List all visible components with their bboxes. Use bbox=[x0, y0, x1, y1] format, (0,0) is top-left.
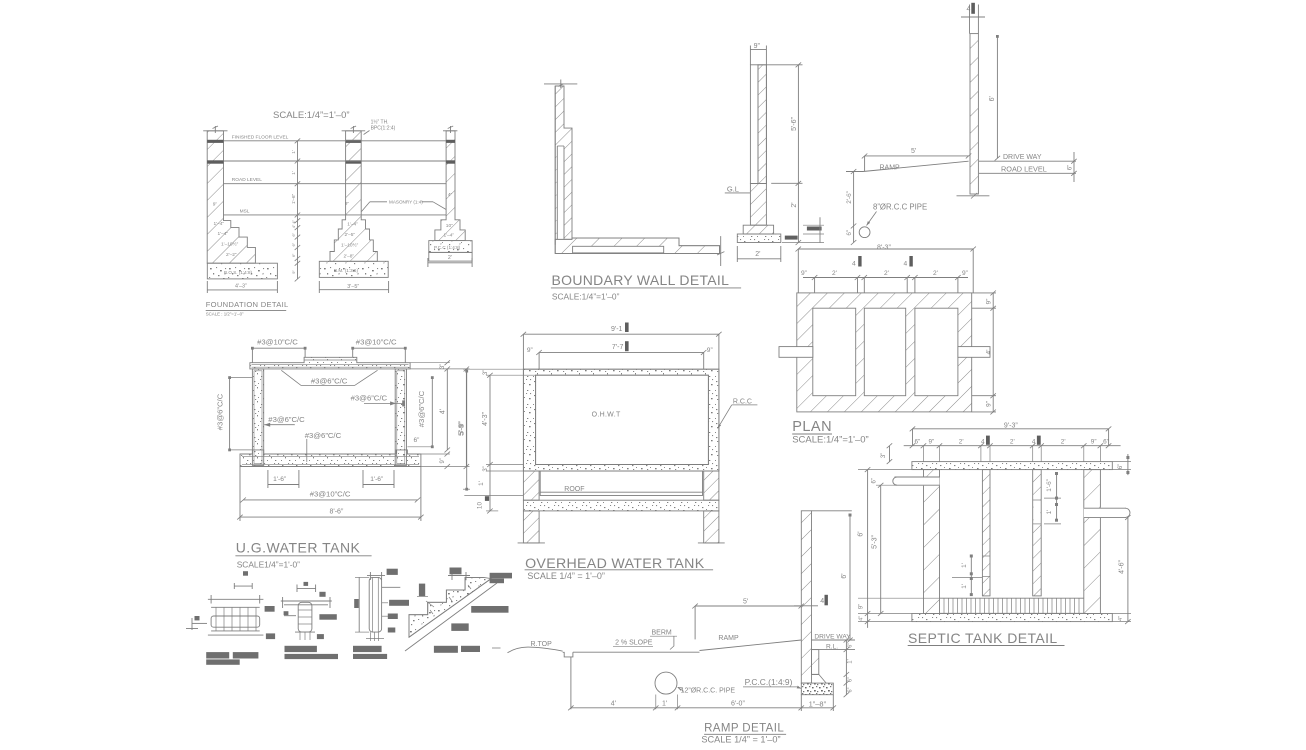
svg-text:3”: 3” bbox=[483, 370, 489, 375]
svg-text:9”: 9” bbox=[1091, 439, 1097, 446]
column left bracket bbox=[284, 615, 296, 617]
svg-text:2': 2' bbox=[884, 270, 889, 277]
beam bottom dim line bbox=[208, 634, 264, 636]
svg-text:1': 1' bbox=[291, 150, 296, 154]
svg-text:6”: 6” bbox=[848, 677, 854, 682]
dim below F2 bbox=[319, 289, 388, 291]
dim 5' bbox=[865, 155, 969, 157]
svg-text:4: 4 bbox=[820, 598, 824, 605]
svg-text:9”: 9” bbox=[440, 458, 446, 463]
tank walls (stippled) bbox=[523, 369, 719, 471]
svg-text:6”: 6” bbox=[291, 253, 296, 257]
wall left dim bbox=[358, 577, 360, 632]
column C3 cap bbox=[443, 130, 457, 132]
svg-text:9”: 9” bbox=[801, 270, 807, 277]
svg-text:BPC(1:2:4): BPC(1:2:4) bbox=[371, 126, 396, 132]
svg-text:#3@10”C/C: #3@10”C/C bbox=[310, 489, 351, 498]
ramp slope line bbox=[863, 161, 969, 171]
svg-text:9”: 9” bbox=[707, 347, 713, 354]
right dim line bbox=[992, 293, 994, 412]
svg-text:MASONRY (1:4): MASONRY (1:4) bbox=[389, 200, 423, 205]
svg-text:1½” TH.: 1½” TH. bbox=[371, 119, 389, 126]
left dim 4'-3" bbox=[489, 375, 491, 464]
svg-text:3”: 3” bbox=[881, 453, 887, 458]
vertical dim string between C1/C2 bbox=[297, 141, 299, 279]
dim 5' above ramp bbox=[695, 605, 801, 607]
floor line 2 bbox=[224, 160, 447, 162]
svg-text:6”: 6” bbox=[872, 478, 878, 483]
svg-text:4': 4' bbox=[439, 409, 446, 414]
compound wall bbox=[970, 34, 978, 194]
beam stirrup bottom line bbox=[211, 630, 260, 632]
svg-text:#3@6”C/C: #3@6”C/C bbox=[268, 415, 305, 424]
column C3 with stepped footing bbox=[435, 131, 465, 241]
svg-text:2': 2' bbox=[832, 270, 837, 277]
svg-text:U.G.WATER TANK: U.G.WATER TANK bbox=[236, 540, 361, 556]
svg-text:1': 1' bbox=[478, 481, 485, 486]
svg-text:1': 1' bbox=[662, 701, 667, 708]
svg-text:6”: 6” bbox=[915, 439, 921, 446]
svg-text:9”: 9” bbox=[213, 202, 218, 208]
L-wall inner face lines bbox=[557, 146, 564, 239]
svg-text:9”: 9” bbox=[986, 401, 993, 407]
MSL line bbox=[224, 214, 447, 216]
L-wall base slab upper part bbox=[555, 238, 719, 253]
plinth band level 1 bbox=[207, 140, 223, 143]
svg-text:6'-0”: 6'-0” bbox=[731, 701, 745, 708]
svg-text:6”: 6” bbox=[1068, 165, 1074, 170]
svg-text:#3@6”C/C: #3@6”C/C bbox=[351, 394, 388, 403]
wall right lines bbox=[382, 586, 401, 588]
pipe dim extensions bbox=[655, 695, 657, 710]
right dim line 5'-6" / 2' bbox=[797, 65, 799, 243]
wall footing bbox=[743, 225, 773, 234]
tier dim line bbox=[904, 445, 1121, 447]
svg-text:SCALE:1/4”=1'–0”: SCALE:1/4”=1'–0” bbox=[273, 110, 350, 121]
svg-text:1': 1' bbox=[961, 584, 968, 589]
svg-text:9”: 9” bbox=[859, 604, 865, 609]
svg-text:5'-6”: 5'-6” bbox=[791, 116, 798, 130]
svg-text:FINISHED FLOOR LEVEL: FINISHED FLOOR LEVEL bbox=[232, 134, 289, 140]
right wall stem bbox=[758, 65, 766, 184]
svg-text:4”: 4” bbox=[448, 192, 453, 198]
baffle wall 1 bbox=[982, 470, 990, 596]
step labels C2 bbox=[341, 201, 359, 260]
column body bbox=[298, 602, 312, 632]
baffle wall 2 bbox=[1033, 470, 1042, 596]
svg-text:#3@10”C/C: #3@10”C/C bbox=[356, 338, 397, 347]
svg-text:8'-6”: 8'-6” bbox=[330, 509, 344, 516]
P.C.C. footing block bbox=[801, 683, 833, 695]
tier extension lines down to slab bbox=[924, 446, 1101, 462]
L-wall top dim bbox=[544, 83, 577, 85]
dim 9" bottom right bbox=[421, 453, 450, 455]
svg-text:RAMP DETAIL: RAMP DETAIL bbox=[704, 723, 784, 735]
bottom slab bbox=[912, 614, 1112, 622]
svg-text:9”: 9” bbox=[345, 201, 350, 207]
chamber 1 bbox=[813, 308, 856, 396]
bottom slab bbox=[240, 450, 421, 467]
left wall bbox=[252, 369, 263, 466]
svg-text:6”: 6” bbox=[848, 687, 854, 692]
stair left marks bbox=[419, 584, 425, 597]
svg-text:6”: 6” bbox=[846, 230, 853, 236]
tier dims bbox=[803, 277, 968, 279]
svg-text:1': 1' bbox=[848, 659, 854, 663]
svg-text:MSL: MSL bbox=[240, 209, 250, 215]
R.TOP ground curve bbox=[508, 647, 563, 653]
svg-text:6': 6' bbox=[858, 531, 865, 536]
svg-text:2'–5”: 2'–5” bbox=[345, 232, 356, 238]
svg-text:1'–4”: 1'–4” bbox=[218, 231, 229, 237]
footing F1 (B.O.S.) bbox=[207, 263, 277, 279]
svg-text:4: 4 bbox=[981, 439, 985, 446]
svg-text:1”–8”: 1”–8” bbox=[809, 700, 827, 709]
right wall bbox=[395, 369, 406, 466]
svg-text:R.C.C: R.C.C bbox=[733, 398, 752, 405]
svg-text:SEPTIC TANK DETAIL: SEPTIC TANK DETAIL bbox=[908, 630, 1058, 646]
left vert dim 2'-6" / 6" bbox=[853, 172, 855, 243]
bottom dims 1'-6" bbox=[268, 484, 299, 486]
stair dim diagonal bbox=[405, 583, 497, 651]
stair top bracket bbox=[451, 572, 453, 580]
dim 3" top right bbox=[410, 362, 450, 364]
svg-text:2': 2' bbox=[791, 202, 798, 207]
inlet pipe bbox=[895, 477, 940, 486]
svg-text:2'–2”: 2'–2” bbox=[226, 252, 237, 258]
column label blocks bbox=[319, 592, 325, 597]
beam stirrup top line bbox=[211, 606, 260, 608]
dim 2' below bbox=[737, 258, 781, 260]
svg-text:SCALE 1/4” = 1'–0”: SCALE 1/4” = 1'–0” bbox=[527, 571, 605, 581]
svg-text:5'-9”: 5'-9” bbox=[459, 421, 466, 435]
svg-text:RAMP: RAMP bbox=[880, 165, 901, 172]
svg-text:4'-3”: 4'-3” bbox=[482, 411, 489, 425]
svg-text:9”: 9” bbox=[986, 299, 993, 305]
small dark dim labels right of footing bbox=[807, 227, 822, 231]
beam top dim line bbox=[208, 598, 264, 600]
chamber 2 bbox=[864, 308, 905, 396]
wall top line to 6' dim bbox=[812, 510, 852, 512]
svg-text:#3@6”C/C: #3@6”C/C bbox=[215, 393, 224, 430]
stair waist (speckled) bbox=[409, 577, 491, 637]
svg-text:6”: 6” bbox=[414, 437, 420, 444]
svg-text:ROOF: ROOF bbox=[564, 486, 584, 493]
svg-text:6': 6' bbox=[841, 573, 848, 578]
svg-text:4'-6”: 4'-6” bbox=[1119, 559, 1126, 573]
left wall bbox=[924, 470, 940, 614]
svg-text:1': 1' bbox=[291, 171, 296, 175]
column C2 with stepped footing bbox=[330, 131, 377, 261]
svg-text:9”: 9” bbox=[962, 270, 968, 277]
wall caption blocks bbox=[353, 646, 382, 652]
svg-text:1'-6”: 1'-6” bbox=[1046, 479, 1053, 492]
svg-text:4'–3”: 4'–3” bbox=[235, 283, 247, 289]
svg-text:SCALE 1/4” = 1'–0”: SCALE 1/4” = 1'–0” bbox=[701, 734, 780, 744]
svg-text:9”: 9” bbox=[929, 439, 935, 446]
svg-text:4': 4' bbox=[611, 701, 616, 708]
stair caption blocks bbox=[434, 646, 458, 653]
svg-text:DRIVE WAY: DRIVE WAY bbox=[814, 633, 851, 640]
svg-text:6”: 6” bbox=[848, 643, 854, 648]
support columns upper bbox=[523, 471, 539, 500]
below ground wall bbox=[750, 184, 766, 226]
footing F3 (P.C.C.) bbox=[429, 241, 472, 253]
wall base tick bbox=[957, 195, 990, 197]
top slab bbox=[912, 462, 1112, 470]
left dim 10" bbox=[489, 465, 491, 511]
roof slab under tank bbox=[540, 471, 702, 496]
svg-text:9'-1: 9'-1 bbox=[611, 326, 623, 333]
column top bracket bbox=[297, 588, 316, 590]
L-wall base slab end tick bbox=[720, 236, 722, 266]
ground line bbox=[573, 651, 700, 653]
column C1 with stepped footing bbox=[207, 131, 255, 263]
column C1 cap bbox=[203, 130, 227, 132]
svg-text:10: 10 bbox=[477, 502, 484, 510]
svg-text:#3@10”C/C: #3@10”C/C bbox=[257, 338, 298, 347]
dim 5'-9" far right bbox=[465, 369, 467, 467]
footing stipple base bbox=[737, 234, 781, 243]
svg-text:2'-6”: 2'-6” bbox=[846, 191, 853, 204]
svg-text:1'–10½”: 1'–10½” bbox=[341, 242, 359, 249]
svg-text:1'-6”: 1'-6” bbox=[370, 476, 383, 483]
svg-text:2': 2' bbox=[448, 255, 452, 261]
svg-text:2': 2' bbox=[1061, 439, 1066, 446]
beam body bbox=[211, 616, 260, 627]
svg-text:1'–4”: 1'–4” bbox=[444, 233, 455, 239]
footing F3 lower band bbox=[429, 252, 472, 261]
R.C.C pipe circle bbox=[859, 227, 870, 238]
12" R.C.C pipe circle bbox=[655, 672, 677, 694]
svg-text:6”: 6” bbox=[291, 242, 296, 246]
outlet pipe stub bbox=[958, 347, 990, 358]
road level line bbox=[224, 183, 447, 185]
svg-text:4”: 4” bbox=[291, 219, 296, 223]
septic plan body (hatched) bbox=[797, 293, 972, 412]
svg-text:#3@6”C/C: #3@6”C/C bbox=[417, 390, 426, 427]
svg-text:3'–5”: 3'–5” bbox=[347, 284, 359, 290]
svg-text:5': 5' bbox=[911, 148, 916, 155]
plinth band level 2 bbox=[207, 160, 223, 163]
right 6" dim bbox=[1073, 152, 1075, 182]
L-wall base slab inner step (white) bbox=[573, 246, 664, 253]
support columns lower bbox=[523, 511, 539, 543]
wall body bbox=[369, 577, 381, 632]
svg-text:6”: 6” bbox=[291, 232, 296, 236]
svg-text:1': 1' bbox=[961, 563, 968, 568]
svg-text:2 % SLOPE: 2 % SLOPE bbox=[615, 640, 653, 647]
svg-text:#3@6”C/C: #3@6”C/C bbox=[305, 431, 342, 440]
svg-text:ROAD LEVEL: ROAD LEVEL bbox=[232, 177, 262, 183]
wall bottom marks bbox=[369, 632, 381, 636]
L-wall upper stem bbox=[555, 86, 572, 239]
svg-text:R.TOP: R.TOP bbox=[531, 641, 553, 648]
svg-text:6': 6' bbox=[989, 96, 996, 101]
outlet pipe bbox=[1084, 508, 1128, 518]
column C2 cap bbox=[342, 130, 366, 132]
svg-text:1': 1' bbox=[1046, 510, 1053, 515]
svg-text:RAMP: RAMP bbox=[718, 635, 739, 642]
beam right label block bbox=[265, 606, 275, 612]
svg-text:SCALE:1/4”=1'–0”: SCALE:1/4”=1'–0” bbox=[552, 292, 620, 302]
column bottom marks bbox=[295, 631, 315, 633]
mini detail: wall section bbox=[353, 569, 409, 659]
inlet pipe stub bbox=[779, 347, 813, 358]
svg-text:5': 5' bbox=[743, 599, 748, 606]
beam caption blocks bbox=[206, 652, 229, 658]
svg-text:10”: 10” bbox=[446, 223, 453, 229]
svg-text:2': 2' bbox=[933, 270, 938, 277]
floor slab band bbox=[523, 500, 719, 511]
svg-text:1'–6”: 1'–6” bbox=[291, 193, 296, 204]
svg-text:4”: 4” bbox=[1118, 616, 1124, 621]
svg-text:4: 4 bbox=[1032, 439, 1036, 446]
svg-text:7'-7: 7'-7 bbox=[612, 344, 624, 351]
svg-text:ROAD LEVEL: ROAD LEVEL bbox=[1001, 165, 1047, 174]
svg-text:B.O.S. (1:4:8): B.O.S. (1:4:8) bbox=[224, 270, 253, 275]
svg-text:4”: 4” bbox=[291, 224, 296, 228]
svg-text:2': 2' bbox=[1010, 439, 1015, 446]
dim 1'-6" at baffle2 bbox=[1056, 473, 1058, 498]
column cross lines bbox=[281, 600, 332, 602]
wall top bracket bbox=[370, 576, 400, 578]
dim below F3 bbox=[428, 262, 472, 264]
mini detail: column section bbox=[281, 582, 338, 659]
dim 1' at baffle2 bbox=[1056, 498, 1058, 520]
svg-text:1'–4”: 1'–4” bbox=[214, 221, 225, 227]
left dim 5'-9" bbox=[466, 371, 468, 489]
right dim 6' bbox=[996, 36, 998, 158]
svg-text:BOUNDARY WALL DETAIL: BOUNDARY WALL DETAIL bbox=[552, 272, 730, 288]
svg-text:6”: 6” bbox=[1118, 464, 1124, 469]
stair label blocks bbox=[490, 573, 512, 579]
svg-text:8'-3”: 8'-3” bbox=[877, 245, 891, 252]
filter media grating bbox=[940, 598, 1084, 613]
svg-text:4: 4 bbox=[904, 261, 908, 268]
wall label blocks bbox=[389, 600, 409, 606]
dim below F1 bbox=[207, 289, 277, 291]
column caption blocks bbox=[285, 646, 317, 652]
svg-text:2': 2' bbox=[959, 439, 964, 446]
step labels C3 bbox=[444, 192, 455, 239]
stair steps bbox=[409, 577, 484, 637]
step labels C1 bbox=[213, 202, 239, 259]
svg-text:6”: 6” bbox=[1103, 439, 1109, 446]
retaining wall bbox=[801, 511, 811, 683]
svg-text:12”ØR.C.C. PIPE: 12”ØR.C.C. PIPE bbox=[681, 687, 736, 694]
svg-text:8”ØR.C.C PIPE: 8”ØR.C.C PIPE bbox=[873, 203, 927, 212]
svg-text:SCALE : 1/2”=1'–0”: SCALE : 1/2”=1'–0” bbox=[206, 311, 244, 316]
svg-text:DRIVE WAY: DRIVE WAY bbox=[1003, 154, 1042, 161]
right dims 6" 1' 6" 6" bbox=[845, 640, 847, 695]
berm notch bbox=[563, 652, 573, 657]
svg-text:SCALE:1/4”=1'–0”: SCALE:1/4”=1'–0” bbox=[792, 435, 869, 446]
svg-text:5'-3”: 5'-3” bbox=[872, 534, 879, 548]
svg-text:PLAN: PLAN bbox=[792, 419, 832, 435]
tier labels bbox=[915, 439, 1109, 446]
svg-text:9”: 9” bbox=[291, 270, 296, 274]
left dim lines bbox=[867, 470, 869, 628]
svg-text:O.H.W.T: O.H.W.T bbox=[592, 412, 621, 419]
svg-text:#3@6”C/C: #3@6”C/C bbox=[311, 376, 348, 385]
svg-text:FOUNDATION DETAIL: FOUNDATION DETAIL bbox=[206, 300, 289, 309]
right dim lines bbox=[1127, 454, 1129, 475]
right wall bbox=[1084, 470, 1101, 614]
top slab with raised manhole bbox=[250, 357, 410, 369]
svg-text:P.C.C (1:4:8): P.C.C (1:4:8) bbox=[434, 245, 461, 250]
dims 1' 1' at baffle1 bbox=[970, 556, 972, 595]
finished floor level line bbox=[224, 140, 447, 142]
svg-text:2': 2' bbox=[755, 251, 760, 258]
column base lines bbox=[518, 542, 545, 544]
svg-text:9”: 9” bbox=[754, 43, 761, 50]
svg-text:1'-6”: 1'-6” bbox=[273, 476, 286, 483]
left dim line bbox=[228, 378, 230, 450]
svg-text:4”: 4” bbox=[859, 616, 865, 621]
svg-text:4': 4' bbox=[986, 350, 993, 355]
beam top small dim bbox=[234, 585, 252, 587]
mini detail: beam section bbox=[186, 571, 275, 665]
svg-text:1'–4”: 1'–4” bbox=[347, 222, 358, 228]
svg-text:1'–10½”: 1'–10½” bbox=[221, 241, 239, 248]
left boundary vertical bbox=[570, 657, 572, 709]
ramp slope line bbox=[700, 640, 802, 651]
svg-text:2'–8”: 2'–8” bbox=[344, 254, 355, 260]
svg-text:9”: 9” bbox=[527, 347, 533, 354]
footing F2 (B.O.S.) bbox=[319, 261, 388, 277]
svg-text:G.L: G.L bbox=[727, 185, 739, 194]
svg-text:SCALE1/4”=1'-0”: SCALE1/4”=1'-0” bbox=[237, 559, 300, 569]
wall step below R.L. bbox=[812, 650, 819, 675]
dim 4' right bbox=[446, 369, 448, 450]
stair soffit line bbox=[409, 579, 491, 638]
svg-text:B.M. (1:3:6): B.M. (1:3:6) bbox=[334, 268, 358, 273]
svg-text:4: 4 bbox=[852, 261, 856, 268]
svg-text:P.C.C.(1:4:9): P.C.C.(1:4:9) bbox=[745, 677, 793, 687]
svg-text:BERM: BERM bbox=[652, 629, 672, 636]
mini detail: staircase bbox=[405, 568, 512, 653]
beam left bracket bbox=[191, 618, 193, 630]
bottom dim line bbox=[571, 707, 833, 709]
chamber 3 bbox=[915, 308, 958, 396]
dim 6' right of wall bbox=[849, 515, 851, 641]
